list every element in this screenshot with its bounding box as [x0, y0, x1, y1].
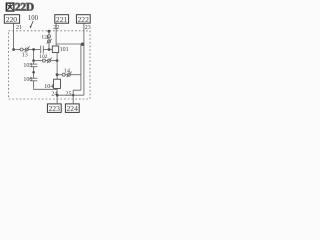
node I junction dot — [56, 59, 59, 62]
wire switch 102 to node I — [51, 60, 58, 62]
block 224 — [65, 104, 79, 113]
dashed enclosure 100 — [9, 31, 91, 99]
wire bottom elbow from 222 column to node F — [57, 94, 84, 96]
wire node E branch down right-inner column — [80, 44, 82, 90]
switch 11 (vertical) — [47, 35, 52, 44]
wire node H to switch 102 — [34, 60, 43, 62]
capacitor 12 — [41, 46, 44, 54]
terminal dot on enclosure top for switch 11 branch — [48, 30, 51, 33]
wire node H down to capacitor 103 — [33, 61, 35, 65]
wire node A to switch 13 — [14, 49, 21, 51]
svg-text:12c: 12c — [41, 34, 50, 40]
svg-text:23: 23 — [85, 25, 91, 31]
wire right-inner elbow toward block 224 — [73, 90, 81, 104]
wire terminal to switch 11 — [48, 31, 50, 35]
node F junction dot — [56, 94, 59, 97]
switch 14 — [62, 72, 71, 78]
wire node K to switch 14 — [57, 74, 62, 76]
wire capacitor 103 to node J — [33, 67, 35, 79]
svg-text:22D: 22D — [15, 2, 34, 14]
svg-text:221: 221 — [56, 15, 68, 24]
title figure label 図22D — [6, 2, 34, 14]
reference numeral 100 with leader arrow to enclosure — [28, 15, 39, 29]
svg-text:102: 102 — [39, 54, 48, 60]
resistor 104 — [54, 79, 61, 88]
svg-text:14: 14 — [64, 69, 70, 75]
wire from block 222 terminal 23 down to node E and on to bottom elbow — [83, 23, 85, 95]
wire switch 11 to node C — [48, 43, 50, 50]
svg-text:220: 220 — [6, 15, 18, 24]
wire from block 221 terminal 22 down into component 101 top — [55, 23, 57, 46]
svg-text:101: 101 — [60, 47, 69, 53]
wire node F down to block 223 — [56, 95, 58, 104]
wire node D horizontal run to node E — [56, 43, 84, 45]
component 101 box — [52, 46, 58, 53]
svg-text:223: 223 — [49, 104, 61, 113]
switch 102 — [42, 58, 52, 64]
capacitor 106 — [30, 78, 37, 81]
capacitor 103 — [30, 64, 37, 67]
node A junction dot — [12, 48, 15, 51]
wire from block 220 terminal 21 down to node A — [13, 23, 15, 49]
svg-text:13: 13 — [22, 53, 28, 59]
node B junction dot — [32, 48, 35, 51]
svg-text:103: 103 — [23, 63, 32, 69]
svg-text:21: 21 — [16, 25, 22, 31]
block 223 — [47, 104, 61, 113]
svg-text:106: 106 — [23, 77, 32, 83]
wire switch 13 to capacitor 12 — [28, 49, 40, 51]
svg-text:25: 25 — [66, 91, 72, 97]
node K junction dot — [56, 73, 59, 76]
node C junction dot — [48, 48, 51, 51]
wire switch 14 to right-inner column — [70, 74, 81, 76]
svg-text:24: 24 — [51, 91, 57, 97]
wire node B down to node H — [33, 50, 35, 61]
wire capacitor 106 elbow to resistor bottom column — [34, 81, 58, 90]
switch 13 — [20, 46, 30, 52]
block 221 — [55, 15, 69, 24]
svg-text:222: 222 — [78, 15, 90, 24]
node G crossing dot — [72, 94, 74, 96]
wire node I down through node K to resistor 104 — [56, 53, 58, 80]
wire resistor 104 bottom to node F — [56, 88, 58, 95]
node H junction dot — [32, 59, 35, 62]
svg-text:100: 100 — [28, 15, 39, 22]
block 220 — [4, 15, 19, 24]
node E junction dot — [81, 43, 84, 46]
svg-text:104: 104 — [44, 84, 53, 90]
svg-text:224: 224 — [67, 104, 79, 113]
wire capacitor 12 to node C — [43, 49, 52, 51]
node J junction dot — [32, 71, 35, 74]
block 222 — [76, 15, 90, 24]
